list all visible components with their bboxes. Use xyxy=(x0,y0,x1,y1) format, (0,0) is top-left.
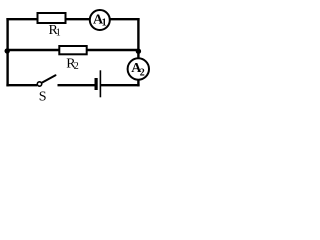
wire bottom middle segment xyxy=(58,84,95,86)
svg-text:1: 1 xyxy=(102,18,107,29)
wire left vertical xyxy=(6,18,8,86)
resistor R1 xyxy=(38,13,66,23)
ammeter A2 xyxy=(128,58,149,79)
wire middle horizontal xyxy=(6,49,138,51)
switch S xyxy=(37,75,55,86)
node junction left xyxy=(5,48,10,53)
wire bottom right segment xyxy=(101,84,140,86)
svg-text:2: 2 xyxy=(74,61,79,72)
ammeter A1 xyxy=(90,10,110,30)
svg-text:1: 1 xyxy=(56,28,61,39)
resistor R2 xyxy=(59,46,86,54)
wire bottom left segment xyxy=(6,84,37,86)
svg-text:2: 2 xyxy=(140,67,145,78)
wire right vertical xyxy=(137,18,139,86)
svg-text:S: S xyxy=(39,90,47,105)
node junction right xyxy=(136,49,141,54)
wire top horizontal xyxy=(6,18,139,20)
battery xyxy=(95,70,102,97)
